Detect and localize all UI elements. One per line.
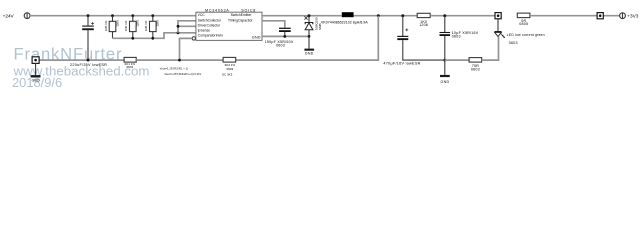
svg-text:+24V: +24V <box>3 13 15 18</box>
label 10uF X5R/16V <box>452 31 479 39</box>
svg-text:220uF/35V lowESR: 220uF/35V lowESR <box>70 63 107 67</box>
svg-text:1R0 1%: 1R0 1% <box>124 20 128 31</box>
svg-text:VCC: VCC <box>198 13 206 17</box>
svg-text:SC 3K3: SC 3K3 <box>222 73 233 77</box>
svg-text:SwitchCollector: SwitchCollector <box>198 18 222 22</box>
pin IpSense <box>198 28 211 32</box>
svg-text:+3V3: +3V3 <box>627 13 638 18</box>
wire switch collector <box>178 21 196 33</box>
svg-text:VK0744086522102 8µH/8.9A: VK0744086522102 8µH/8.9A <box>321 20 368 24</box>
resistor sense R3 vertical <box>144 16 160 39</box>
label VK0744086522102 8uH/8.9A <box>321 20 368 24</box>
svg-text:GND: GND <box>441 80 450 84</box>
node junction driver collector <box>177 25 180 28</box>
terminal +3V3 output <box>620 13 626 19</box>
node +24V label <box>3 13 15 18</box>
resistor sense R2 vertical <box>124 16 140 39</box>
svg-text:0603: 0603 <box>276 44 285 48</box>
svg-text:Vout=1.25*(3K3/2K1+1)=3.21V: Vout=1.25*(3K3/2K1+1)=3.21V <box>164 72 201 76</box>
wire feedback drop <box>236 16 379 60</box>
wire comparator inverting input <box>180 38 192 60</box>
node junction input cap on rail <box>87 14 90 17</box>
svg-text:SMB: SMB <box>318 23 322 30</box>
svg-text:Vout=1.25*(R2/R1 + 1): Vout=1.25*(R2/R1 + 1) <box>160 67 188 71</box>
svg-text:DriverCollector: DriverCollector <box>198 23 221 27</box>
resistor 75R LED series <box>469 58 482 72</box>
pin VCC <box>198 13 206 17</box>
node square gnd tap left <box>32 57 39 64</box>
wire timing capacitor <box>262 21 285 28</box>
label MC34063A SOIC8 <box>205 8 256 12</box>
watermark 2018/9/6 <box>12 75 62 90</box>
wire gnd feedback bottom left <box>39 59 124 61</box>
wire switch emitter to inductor <box>262 15 342 17</box>
svg-text:ComparatorInvIn: ComparatorInvIn <box>198 34 223 38</box>
resistor 1K series <box>417 13 430 27</box>
wire driver collector <box>178 25 196 27</box>
wire +24V rail left <box>30 15 196 17</box>
capacitor 150pF timing <box>279 28 291 36</box>
svg-text:1206: 1206 <box>115 20 119 27</box>
op-amp U1 MC34063A box <box>196 12 262 40</box>
node junction output cap on rail <box>401 14 404 17</box>
label formula Vout <box>160 67 188 71</box>
node junction sense bottom R2 <box>131 37 134 40</box>
pin DriverCollector <box>198 23 221 27</box>
inductor L1 8uH <box>342 12 354 17</box>
node junction Vout feedback tap <box>377 14 380 17</box>
svg-text:1206: 1206 <box>136 20 140 27</box>
node square LED tap <box>495 13 501 19</box>
wire feedback node <box>136 59 223 61</box>
node junction diode on switch node <box>308 14 311 17</box>
pin TimingCapacitor <box>228 18 253 22</box>
node junction feedback divider <box>178 59 181 62</box>
capacitor 470uF/16V output <box>397 16 445 60</box>
svg-text:SwitchEmitter: SwitchEmitter <box>231 13 253 17</box>
node +3V3 label <box>627 13 638 18</box>
node junction 10uF cap on rail <box>443 14 446 17</box>
svg-text:LED low current green: LED low current green <box>507 33 545 37</box>
wire IC ground <box>262 35 309 37</box>
svg-text:0603: 0603 <box>226 67 233 71</box>
svg-text:GND: GND <box>32 79 40 83</box>
capacitor 220uF/35V input <box>82 16 94 60</box>
svg-text:1R0 1%: 1R0 1% <box>104 20 108 31</box>
svg-text:0805: 0805 <box>519 22 528 26</box>
watermark www.thebackshed.com <box>13 63 150 78</box>
ground GND symbol IC <box>304 36 314 55</box>
label 150pF X5R/50V <box>265 40 294 48</box>
node square output tap <box>597 13 603 19</box>
wire output gnd rail <box>445 59 469 61</box>
node junction sense bottom R3 <box>151 37 154 40</box>
svg-text:GND: GND <box>252 35 261 39</box>
node junction R sense1 on rail <box>111 14 114 17</box>
svg-text:470µF/16V lowESR: 470µF/16V lowESR <box>383 61 420 65</box>
pin SwitchEmitter <box>231 13 253 17</box>
LED D2 low current green <box>494 19 505 38</box>
svg-text:0603: 0603 <box>509 41 518 45</box>
svg-text:0603: 0603 <box>471 68 480 72</box>
svg-text:MC34063A: MC34063A <box>205 8 229 12</box>
resistor sense R1 vertical <box>104 16 120 39</box>
wire 0R to output terminal <box>530 15 620 17</box>
pin ComparatorInvIn <box>198 34 223 38</box>
label 470uF/16V lowESR <box>383 61 420 65</box>
wire sense resistor bottoms <box>113 33 196 39</box>
label LED low current green <box>507 33 545 45</box>
capacitor 10uF X5R/16V <box>440 16 451 60</box>
resistor 2K1 feedback lower <box>124 57 136 69</box>
svg-text:IpSense: IpSense <box>198 28 211 32</box>
node junction timing cap to gnd <box>283 35 286 38</box>
svg-text:1206: 1206 <box>419 23 428 27</box>
svg-text:0603: 0603 <box>452 35 461 39</box>
resistor 0R link <box>517 13 530 26</box>
diode D1 10BQ100 schottky <box>305 16 322 37</box>
label formula Vout values <box>164 72 201 76</box>
svg-text:TimingCapacitor: TimingCapacitor <box>228 18 253 22</box>
label 220uF/35V lowESR <box>70 63 107 67</box>
svg-text:0603: 0603 <box>126 65 133 69</box>
svg-text:1R0 1%: 1R0 1% <box>144 20 148 31</box>
ground GND symbol left <box>31 63 41 82</box>
resistor 3K3 feedback upper <box>222 57 236 76</box>
node junction R sense2 on rail <box>131 14 134 17</box>
wire 1K to LED node <box>430 15 495 17</box>
node junction output gnd <box>443 59 446 62</box>
svg-text:SOIC8: SOIC8 <box>241 8 256 12</box>
node junction R sense3 on rail <box>151 14 154 17</box>
pin SwitchCollector <box>198 18 222 22</box>
node junction collectors to sense <box>177 31 180 34</box>
svg-text:GND: GND <box>305 52 314 56</box>
wire inductor to output <box>354 15 418 17</box>
node junction diode anode to gnd <box>308 35 311 38</box>
ground GND symbol output <box>440 60 450 84</box>
marker X diode <box>304 16 307 19</box>
wire LED cathode return <box>482 37 499 61</box>
svg-text:1206: 1206 <box>156 20 160 27</box>
node junction input cap bottom <box>87 59 90 62</box>
pin GND <box>252 35 261 39</box>
pin bubble ComparatorInvIn <box>192 37 195 40</box>
terminal +24V input <box>24 13 30 19</box>
watermark FrankNFurter <box>14 45 123 64</box>
